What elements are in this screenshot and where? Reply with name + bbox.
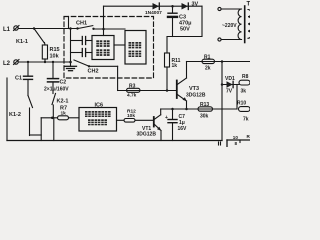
svg-text:10: 10 <box>233 135 239 140</box>
wire L1 to CH1 <box>19 28 78 30</box>
capacitor C1 <box>15 62 33 96</box>
svg-text:3DG12B: 3DG12B <box>137 132 157 138</box>
wire R8/R9 vertical <box>236 85 238 110</box>
svg-text:L1: L1 <box>3 27 11 33</box>
transistor VT3 <box>177 62 206 110</box>
wire R12 to VT1 <box>135 119 153 121</box>
node junction K1-1 top <box>33 27 35 29</box>
box speech circuit <box>125 31 146 65</box>
svg-text:1k: 1k <box>61 110 67 116</box>
wire left vertical to bottom rail <box>6 78 8 141</box>
capacitor C2 (2 x 1u/160V) <box>44 62 69 94</box>
switch K2-1 <box>52 94 68 118</box>
top rail 3V <box>104 5 203 7</box>
capacitor C3 <box>168 5 192 37</box>
svg-text:4.7k: 4.7k <box>127 93 137 99</box>
svg-text:C1: C1 <box>15 76 22 82</box>
node junction R7 left <box>51 117 54 120</box>
svg-text:K1-1: K1-1 <box>16 39 28 45</box>
svg-text:R1: R1 <box>204 55 211 61</box>
svg-text:2×1μ/160V: 2×1μ/160V <box>44 87 69 93</box>
switch CH1 <box>76 21 95 30</box>
node junction C7 top <box>171 108 174 111</box>
svg-text:10k: 10k <box>127 113 135 119</box>
svg-text:K2-1: K2-1 <box>57 99 69 105</box>
diode VD1 7V <box>225 76 235 95</box>
collector row wire <box>161 108 237 110</box>
svg-text:2k: 2k <box>205 66 211 72</box>
dashed telephone box <box>64 17 154 79</box>
wire IC6 to R12 <box>117 119 125 121</box>
wire K1-2 bottom jog <box>30 134 42 136</box>
svg-text:R3: R3 <box>129 84 136 90</box>
transformer T <box>218 2 251 43</box>
svg-text:1N4007: 1N4007 <box>145 10 162 16</box>
wire rail drop into box1 <box>103 6 105 35</box>
resistor R12 <box>124 108 136 122</box>
node L1 terminal <box>3 26 19 34</box>
resistor R1 <box>202 55 215 72</box>
svg-text:7V: 7V <box>226 89 233 95</box>
wire CH1 to box2 <box>94 28 125 30</box>
svg-text:1k: 1k <box>172 63 178 69</box>
svg-text:3V: 3V <box>192 2 199 8</box>
IC bottom-right corner <box>219 134 251 147</box>
bottom rail <box>7 140 222 142</box>
glyph stroke texture <box>85 40 141 125</box>
svg-text:16V: 16V <box>178 126 188 132</box>
resistor R11 <box>165 53 181 91</box>
svg-text:R10: R10 <box>237 101 246 107</box>
svg-text:IC6: IC6 <box>95 103 104 109</box>
rail 2 right <box>187 61 251 63</box>
wire VD1 row <box>222 84 239 86</box>
node junction C1/L2 <box>27 61 29 63</box>
wire base line VT3 <box>118 90 176 92</box>
svg-text:+: + <box>165 115 168 121</box>
wire phone internal vertical <box>70 29 72 63</box>
switch K1-1 <box>16 29 44 46</box>
svg-text:T: T <box>247 2 251 8</box>
svg-text:L2: L2 <box>3 61 11 67</box>
wire to R7 <box>41 117 57 119</box>
svg-text:8: 8 <box>235 141 238 146</box>
svg-text:~220V: ~220V <box>222 23 237 29</box>
diode VD 1N4007 <box>145 3 162 16</box>
node junction rail/VD1 <box>221 60 224 63</box>
node junction R15/L2 <box>44 61 46 63</box>
node junction C2/L2 <box>52 61 54 63</box>
svg-text:3k: 3k <box>241 89 247 95</box>
ground <box>65 61 77 71</box>
node junction rail drop <box>102 28 105 31</box>
svg-text:K1-2: K1-2 <box>9 112 21 118</box>
wire CH1 stub up <box>68 17 70 29</box>
resistor R9 <box>237 101 250 123</box>
svg-text:CH2: CH2 <box>88 68 99 74</box>
wire L2 line <box>19 61 71 63</box>
svg-text:C2: C2 <box>60 80 67 86</box>
transistor VT1 <box>137 109 162 141</box>
node L2 terminal <box>3 60 19 68</box>
svg-text:R15: R15 <box>50 47 60 53</box>
resistor R8 <box>239 74 250 95</box>
resistor R15 <box>42 43 59 63</box>
box IC6 dual tone receiver <box>79 103 117 132</box>
svg-text:7k: 7k <box>243 117 249 123</box>
wire VD1 branch vertical <box>221 62 223 141</box>
wire CH2 drop <box>117 66 119 90</box>
resistor R13 <box>198 102 213 120</box>
capacitor coupling top <box>71 37 93 45</box>
svg-text:R: R <box>247 134 251 139</box>
switch CH2 <box>74 60 118 74</box>
svg-text:VT3: VT3 <box>189 86 199 92</box>
wire R7 left branch vertical <box>40 118 42 141</box>
svg-text:10k: 10k <box>50 54 60 60</box>
svg-text:30k: 30k <box>200 114 209 120</box>
svg-text:CH1: CH1 <box>76 21 87 27</box>
svg-text:R13: R13 <box>200 102 209 108</box>
resistor R7 <box>58 105 69 120</box>
wire junction down <box>53 118 55 141</box>
node junction VT3 emitter <box>185 108 188 111</box>
capacitor C7 <box>165 109 187 141</box>
svg-text:R8: R8 <box>242 74 249 80</box>
svg-text:3DG12B: 3DG12B <box>186 93 206 99</box>
resistor R3 <box>127 84 141 99</box>
svg-text:50V: 50V <box>180 27 190 33</box>
wire box1 to box2 <box>114 44 125 46</box>
diode VD 3V output <box>182 2 199 10</box>
capacitor coupling bottom <box>71 49 93 57</box>
wire 3V corner down <box>167 6 202 53</box>
box ringer circuit <box>92 36 114 60</box>
switch K1-2 <box>9 96 33 136</box>
wire R7 to IC6 <box>69 117 80 119</box>
node junction VD1 <box>221 83 224 86</box>
node junction R11 bottom <box>166 89 169 92</box>
